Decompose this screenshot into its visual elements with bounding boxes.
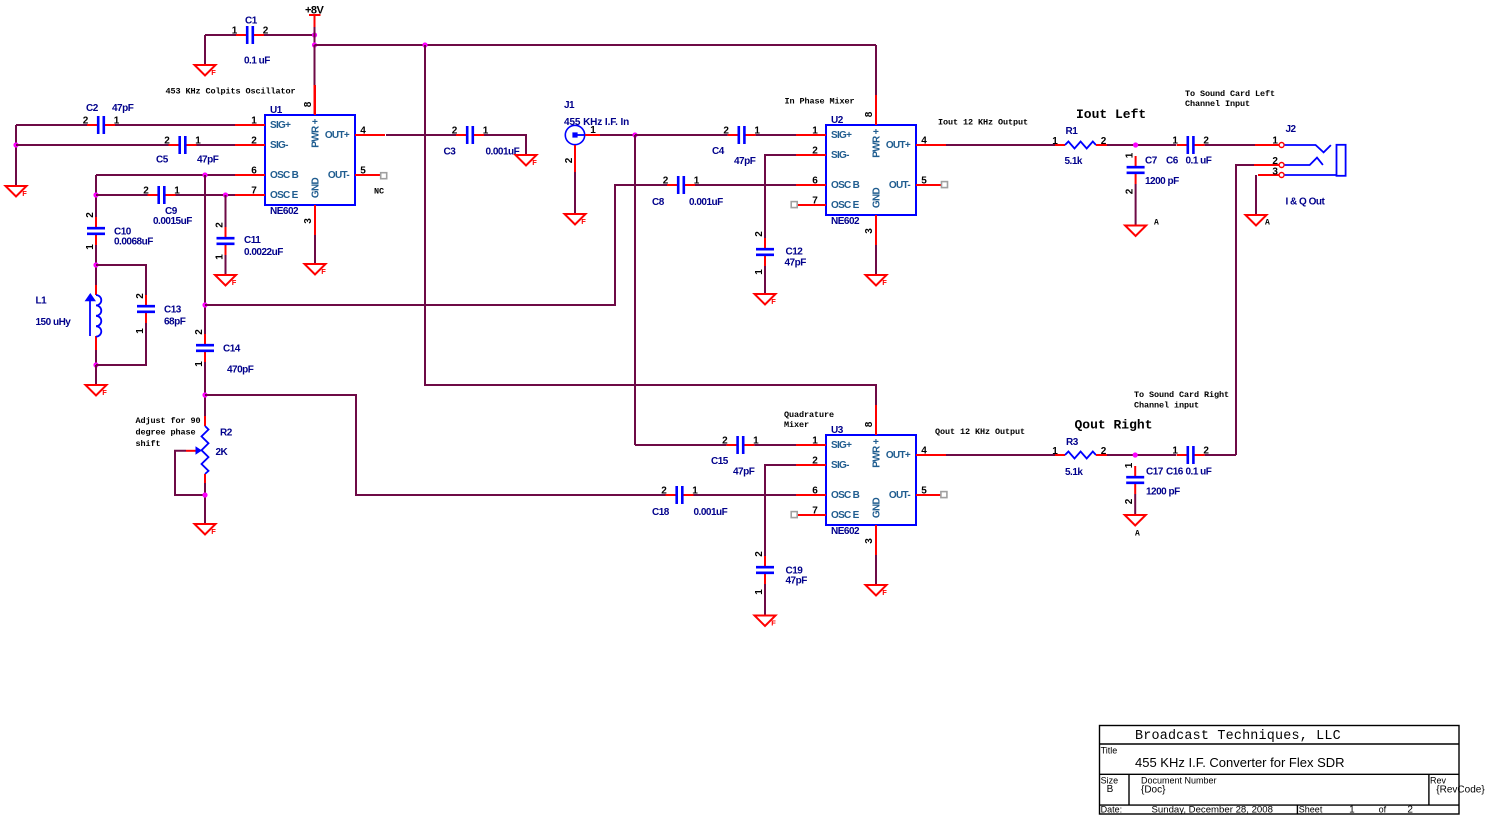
svg-text:6: 6 (812, 486, 818, 497)
svg-text:1: 1 (1124, 462, 1135, 468)
svg-text:NE602: NE602 (831, 216, 860, 227)
capacitor C12 (754, 231, 806, 275)
svg-text:47pF: 47pF (734, 156, 756, 167)
svg-text:8: 8 (864, 421, 875, 427)
svg-text:C8: C8 (652, 197, 665, 208)
wire (15, 125, 17, 186)
wire +8V rail (315, 44, 877, 46)
no-connect U1 pin5 (374, 173, 387, 197)
svg-text:C2: C2 (86, 103, 99, 114)
junction (93, 262, 98, 267)
ground (6, 186, 28, 198)
svg-text:3: 3 (864, 228, 875, 234)
svg-text:7: 7 (812, 506, 818, 517)
no-connect U3 pin7 (791, 512, 797, 518)
wire (875, 555, 877, 585)
svg-text:OUT-: OUT- (328, 170, 349, 181)
svg-text:2: 2 (723, 126, 729, 137)
svg-text:PWR +: PWR + (872, 128, 883, 157)
capacitor C1 (232, 16, 271, 67)
svg-text:1: 1 (1052, 136, 1058, 147)
svg-text:A: A (1135, 530, 1140, 539)
wire (875, 45, 877, 125)
svg-text:5.1k: 5.1k (1065, 156, 1083, 167)
svg-text:OUT-: OUT- (889, 490, 910, 501)
svg-text:0.001uF: 0.001uF (689, 197, 723, 208)
svg-text:2: 2 (1124, 498, 1135, 504)
wire (765, 155, 796, 238)
wire (756, 134, 796, 136)
capacitor C13 (135, 293, 186, 334)
svg-text:4: 4 (921, 136, 927, 147)
ground (866, 275, 888, 287)
svg-text:1200 pF: 1200 pF (1146, 487, 1180, 498)
potentiometer R2 (186, 416, 233, 483)
ground (755, 616, 777, 628)
svg-text:F: F (232, 278, 237, 287)
note To Sound Card Right (1134, 390, 1229, 411)
svg-text:47pF: 47pF (197, 155, 219, 166)
svg-text:1: 1 (754, 589, 765, 595)
svg-text:150 uHy: 150 uHy (36, 317, 72, 328)
power +8V (305, 5, 325, 28)
svg-text:SIG-: SIG- (270, 140, 288, 151)
svg-text:F: F (532, 158, 537, 167)
svg-text:of: of (1379, 804, 1387, 814)
svg-text:F: F (882, 588, 887, 597)
no-connect U2 pin5 (942, 182, 948, 188)
svg-text:1: 1 (135, 328, 146, 334)
svg-text:F: F (211, 68, 216, 77)
capacitor C16 (1166, 446, 1212, 478)
wire (95, 365, 97, 385)
svg-text:GND: GND (872, 497, 883, 518)
junction (223, 192, 228, 197)
svg-text:OSC E: OSC E (831, 200, 860, 211)
svg-text:7: 7 (251, 186, 257, 197)
wire (204, 35, 206, 65)
svg-text:F: F (771, 619, 776, 628)
svg-text:1: 1 (1272, 136, 1278, 147)
svg-text:SIG+: SIG+ (831, 130, 852, 141)
wire (764, 584, 766, 616)
svg-text:To Sound Card Right: To Sound Card Right (1134, 390, 1229, 400)
wire (386, 134, 456, 136)
svg-text:1: 1 (754, 269, 765, 275)
svg-text:3: 3 (1272, 166, 1278, 177)
wire (204, 483, 206, 524)
ground (195, 524, 217, 536)
svg-text:SIG-: SIG- (831, 150, 849, 161)
ground (1125, 219, 1159, 237)
wire (204, 175, 206, 334)
wire (635, 444, 796, 446)
ground (215, 275, 237, 287)
svg-text:F: F (102, 388, 107, 397)
svg-text:Iout 12 KHz Output: Iout 12 KHz Output (938, 118, 1028, 128)
wire (695, 184, 796, 186)
svg-text:1: 1 (194, 361, 205, 367)
svg-text:R3: R3 (1066, 437, 1079, 448)
svg-text:2: 2 (754, 231, 765, 237)
svg-text:1: 1 (85, 244, 96, 250)
ground (1125, 515, 1146, 539)
svg-text:SIG+: SIG+ (270, 120, 291, 131)
svg-text:GND: GND (311, 177, 322, 198)
wire (1255, 175, 1257, 215)
title block (1100, 726, 1486, 816)
ground (565, 214, 587, 226)
wire (96, 194, 235, 196)
wire (425, 45, 876, 435)
svg-text:2: 2 (1101, 136, 1107, 147)
svg-text:C6: C6 (1166, 156, 1179, 167)
svg-text:1: 1 (1052, 446, 1058, 457)
junction (13, 142, 18, 147)
svg-text:OUT+: OUT+ (886, 140, 911, 151)
svg-text:Mixer: Mixer (784, 420, 809, 430)
svg-text:Channel Input: Channel Input (1185, 99, 1250, 109)
svg-text:OSC E: OSC E (831, 510, 860, 521)
IC U2 NE602 (796, 95, 946, 245)
svg-text:U1: U1 (270, 105, 283, 116)
svg-text:1: 1 (215, 254, 226, 260)
svg-text:U2: U2 (831, 115, 844, 126)
junction (202, 172, 207, 177)
svg-text:L1: L1 (36, 296, 48, 307)
ground (195, 65, 217, 77)
svg-text:8: 8 (864, 111, 875, 117)
inductor L1 (36, 285, 102, 350)
svg-text:3: 3 (864, 538, 875, 544)
junction (202, 302, 207, 307)
note Iout Left (1076, 107, 1146, 122)
connector J2 (1254, 124, 1346, 208)
svg-text:1200 pF: 1200 pF (1145, 176, 1179, 187)
capacitor C5 (156, 136, 219, 166)
svg-text:7: 7 (812, 196, 818, 207)
svg-text:OUT+: OUT+ (325, 130, 350, 141)
svg-text:2: 2 (754, 551, 765, 557)
capacitor C7 (1125, 152, 1180, 194)
junction (1133, 452, 1138, 457)
svg-text:NE602: NE602 (831, 526, 860, 537)
junction (312, 32, 317, 37)
svg-text:1: 1 (1349, 804, 1355, 815)
wire (764, 266, 766, 294)
svg-text:0.1 uF: 0.1 uF (244, 56, 270, 67)
svg-text:Quadrature: Quadrature (784, 410, 834, 420)
IC U3 NE602 (796, 405, 946, 555)
svg-text:0.1 uF: 0.1 uF (1186, 467, 1212, 478)
capacitor C15 (711, 436, 759, 478)
svg-text:453 KHz Colpits Oscillator: 453 KHz Colpits Oscillator (166, 87, 296, 97)
wire (635, 134, 728, 136)
no-connect U2 pin7 (791, 202, 797, 208)
wire (95, 245, 97, 285)
note To Sound Card Left (1185, 89, 1275, 109)
svg-text:2: 2 (85, 212, 96, 218)
svg-text:NE602: NE602 (270, 206, 299, 217)
IC U1 NE602 (235, 85, 385, 235)
capacitor C10 (85, 212, 153, 250)
svg-text:2: 2 (1407, 804, 1413, 815)
svg-text:2: 2 (452, 126, 458, 137)
capacitor C8 (652, 176, 723, 209)
capacitor C4 (712, 126, 760, 168)
wire (314, 235, 316, 264)
svg-text:0.0022uF: 0.0022uF (244, 247, 283, 258)
note adjust for 90 degree phase shift (136, 416, 201, 449)
svg-text:Adjust for 90: Adjust for 90 (136, 416, 201, 426)
svg-text:0.0068uF: 0.0068uF (114, 237, 153, 248)
svg-text:C4: C4 (712, 146, 725, 157)
wire (484, 135, 526, 155)
ground (1246, 215, 1271, 227)
svg-text:2K: 2K (216, 447, 229, 458)
svg-text:1: 1 (812, 126, 818, 137)
wire to quadrature osc (205, 185, 668, 305)
svg-text:Channel input: Channel input (1134, 401, 1199, 411)
resistor R3 (1052, 437, 1107, 478)
svg-text:1: 1 (1125, 152, 1136, 158)
wire (1205, 454, 1236, 456)
svg-text:8: 8 (303, 101, 314, 107)
wire (95, 350, 97, 365)
svg-text:2: 2 (194, 329, 205, 335)
wire (96, 174, 235, 176)
svg-text:OSC B: OSC B (831, 180, 860, 191)
junction (202, 492, 207, 497)
wire (96, 323, 146, 365)
capacitor C18 (652, 486, 728, 519)
svg-text:U3: U3 (831, 425, 844, 436)
ground (86, 385, 108, 397)
wire (225, 195, 227, 275)
svg-text:C13: C13 (164, 305, 182, 316)
junction (202, 392, 207, 397)
svg-text:Qout 12 KHz Output: Qout 12 KHz Output (935, 427, 1025, 437)
svg-text:C7: C7 (1145, 156, 1158, 167)
svg-text:C11: C11 (244, 235, 261, 246)
wire (1107, 144, 1176, 146)
ground (866, 585, 888, 597)
svg-text:OSC B: OSC B (831, 490, 860, 501)
svg-text:1: 1 (1172, 136, 1178, 147)
svg-text:5.1k: 5.1k (1065, 467, 1083, 478)
svg-text:F: F (321, 267, 326, 276)
svg-text:To Sound Card Left: To Sound Card Left (1185, 89, 1275, 99)
svg-text:Sheet: Sheet (1299, 804, 1323, 814)
wire (1107, 454, 1176, 456)
svg-text:2: 2 (1101, 446, 1107, 457)
svg-text:0.1 uF: 0.1 uF (1186, 156, 1212, 167)
svg-text:{Doc}: {Doc} (1141, 785, 1166, 796)
svg-text:F: F (22, 189, 27, 198)
ground (755, 294, 777, 306)
wire (634, 135, 636, 445)
svg-text:5: 5 (921, 486, 927, 497)
svg-text:C17: C17 (1146, 467, 1164, 478)
svg-text:C14: C14 (223, 344, 241, 355)
svg-text:Qout Right: Qout Right (1075, 418, 1153, 433)
ground (516, 155, 538, 167)
svg-text:J1: J1 (564, 100, 575, 111)
wire (204, 362, 206, 416)
svg-text:455 KHz I.F. In: 455 KHz I.F. In (564, 117, 629, 128)
junction (422, 42, 427, 47)
ground (305, 264, 327, 276)
wire (16, 144, 235, 146)
svg-text:470pF: 470pF (227, 365, 254, 376)
svg-text:R1: R1 (1066, 126, 1079, 137)
svg-text:C3: C3 (444, 147, 457, 158)
svg-text:R2: R2 (220, 428, 233, 439)
capacitor C17 (1124, 462, 1180, 504)
svg-text:OUT-: OUT- (889, 180, 910, 191)
svg-text:OUT+: OUT+ (886, 450, 911, 461)
svg-text:F: F (771, 297, 776, 306)
junction (93, 192, 98, 197)
svg-text:NC: NC (374, 187, 384, 197)
svg-text:0.0015uF: 0.0015uF (153, 216, 192, 227)
svg-text:47pF: 47pF (786, 576, 808, 587)
svg-text:Date:: Date: (1101, 804, 1123, 814)
wire (875, 245, 877, 275)
junction (632, 132, 637, 137)
svg-text:2: 2 (251, 136, 257, 147)
wire (205, 34, 315, 36)
svg-text:F: F (581, 217, 586, 226)
svg-text:5: 5 (360, 166, 366, 177)
note Qout Right (1075, 418, 1153, 433)
svg-text:In Phase Mixer: In Phase Mixer (785, 97, 855, 107)
junction (1133, 142, 1138, 147)
svg-text:2: 2 (661, 486, 667, 497)
svg-text:2: 2 (564, 157, 575, 163)
capacitor C3 (444, 126, 520, 158)
connector J1 (564, 100, 629, 172)
svg-text:2: 2 (812, 146, 818, 157)
svg-text:0.001uF: 0.001uF (694, 507, 728, 518)
capacitor C9 (143, 186, 192, 228)
svg-text:F: F (882, 278, 887, 287)
svg-text:PWR +: PWR + (872, 438, 883, 467)
svg-text:A: A (1265, 218, 1270, 227)
svg-text:shift: shift (136, 439, 161, 449)
svg-text:C18: C18 (652, 507, 670, 518)
svg-text:PWR +: PWR + (311, 118, 322, 147)
wire (314, 45, 316, 115)
no-connect U3 pin5 (941, 492, 947, 498)
junction (93, 362, 98, 367)
svg-text:J2: J2 (1286, 124, 1297, 135)
svg-text:Sunday, December 28, 2008: Sunday, December 28, 2008 (1152, 804, 1273, 815)
svg-text:+8V: +8V (305, 5, 325, 17)
wire (95, 175, 97, 217)
wire (205, 395, 666, 495)
svg-text:A: A (1154, 219, 1159, 228)
wire (765, 465, 796, 556)
svg-text:Broadcast Techniques, LLC: Broadcast Techniques, LLC (1135, 729, 1341, 744)
capacitor C6 (1166, 136, 1212, 167)
svg-text:47pF: 47pF (112, 103, 134, 114)
svg-text:I & Q Out: I & Q Out (1286, 197, 1326, 208)
note 453 KHz Colpits Oscillator (166, 87, 296, 97)
svg-text:68pF: 68pF (164, 317, 186, 328)
capacitor C2 (83, 103, 134, 134)
note Qout 12 KHz Output (935, 427, 1025, 437)
note Quadrature Mixer (784, 410, 834, 430)
svg-text:2: 2 (135, 293, 146, 299)
svg-text:OSC E: OSC E (270, 190, 299, 201)
svg-text:Title: Title (1101, 746, 1118, 756)
svg-text:C15: C15 (711, 456, 729, 467)
svg-text:5: 5 (921, 176, 927, 187)
wire (574, 172, 576, 214)
wire (1134, 494, 1136, 515)
svg-text:0.001uF: 0.001uF (486, 147, 520, 158)
svg-text:4: 4 (360, 126, 366, 137)
wire (600, 134, 635, 136)
wire (314, 27, 316, 45)
svg-text:47pF: 47pF (785, 258, 807, 269)
svg-text:Iout Left: Iout Left (1076, 107, 1146, 122)
svg-text:1: 1 (251, 116, 257, 127)
wire (16, 124, 235, 126)
wire wiper (175, 451, 205, 495)
wire (96, 265, 146, 295)
svg-text:47pF: 47pF (733, 467, 755, 478)
svg-text:2: 2 (1125, 188, 1136, 194)
capacitor C14 (194, 329, 254, 376)
svg-text:4: 4 (921, 446, 927, 457)
wire (946, 454, 1055, 456)
junction (312, 42, 317, 47)
svg-text:2: 2 (663, 176, 669, 187)
svg-text:GND: GND (872, 187, 883, 208)
svg-text:2: 2 (1272, 156, 1278, 167)
svg-text:6: 6 (251, 166, 257, 177)
svg-text:3: 3 (303, 218, 314, 224)
wire (1135, 184, 1137, 226)
svg-text:1: 1 (1172, 446, 1178, 457)
svg-text:2: 2 (215, 222, 226, 228)
resistor R1 (1052, 126, 1107, 167)
wire (1205, 144, 1255, 146)
capacitor C11 (215, 222, 284, 260)
svg-text:OSC B: OSC B (270, 170, 299, 181)
wire (946, 144, 1055, 146)
svg-text:SIG+: SIG+ (831, 440, 852, 451)
svg-text:1: 1 (812, 436, 818, 447)
svg-text:SIG-: SIG- (831, 460, 849, 471)
svg-text:6: 6 (812, 176, 818, 187)
wire (1236, 165, 1254, 455)
svg-text:degree phase: degree phase (136, 428, 196, 438)
wire (694, 494, 797, 496)
svg-text:C16: C16 (1166, 467, 1184, 478)
note In Phase Mixer (785, 97, 855, 107)
note Iout 12 KHz Output (938, 118, 1028, 128)
svg-text:C5: C5 (156, 155, 169, 166)
svg-text:2: 2 (812, 456, 818, 467)
svg-text:B: B (1107, 784, 1114, 795)
svg-text:C12: C12 (786, 247, 804, 258)
svg-text:455 KHz I.F. Converter for Fle: 455 KHz I.F. Converter for Flex SDR (1135, 755, 1345, 770)
svg-text:F: F (211, 527, 216, 536)
svg-text:{RevCode}: {RevCode} (1436, 785, 1485, 796)
